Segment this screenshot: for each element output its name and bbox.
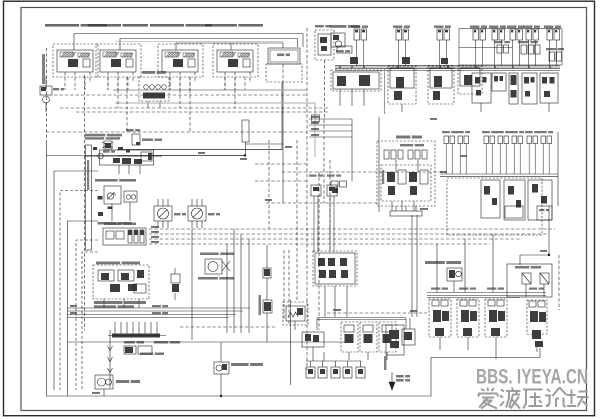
label note bbox=[94, 301, 146, 308]
wire vert dashed 297 bbox=[296, 140, 298, 300]
wire dash y132 bbox=[46, 131, 307, 133]
pilot valve pair 3 bbox=[482, 131, 496, 174]
wire sensor bbox=[266, 245, 268, 342]
wire bus top 3 bbox=[176, 43, 283, 50]
wire bankB header2 bbox=[427, 295, 546, 297]
lift cylinder group 2 bbox=[88, 24, 148, 90]
wire feed bankA 1 bbox=[324, 286, 326, 317]
aux pair row2 c bbox=[546, 48, 564, 61]
cylinder pair 1 bbox=[351, 26, 368, 67]
wire FBR ext bbox=[282, 150, 284, 203]
wire vert 234 bbox=[233, 229, 235, 333]
wire gray drop bbox=[384, 69, 386, 114]
wire main vert A bbox=[46, 140, 48, 396]
wire pilot line bbox=[46, 155, 245, 157]
wire link y144 bbox=[245, 143, 283, 145]
valve V5 bbox=[214, 342, 263, 396]
wire stag 2 bbox=[67, 310, 243, 312]
wire dash y313 bbox=[327, 312, 427, 314]
wire dash y181 bbox=[255, 180, 307, 182]
wire corner E bbox=[76, 240, 98, 390]
wire drop right bbox=[520, 206, 549, 265]
bankA column 3 bbox=[379, 322, 396, 360]
node J3 bbox=[220, 395, 222, 397]
wire bottom collector bbox=[46, 348, 540, 396]
cluster 406 bbox=[402, 318, 415, 345]
pump P2 bbox=[95, 375, 140, 396]
wire mid bus 2 bbox=[440, 175, 558, 177]
valve column MC3 bbox=[528, 180, 552, 220]
wire stag 1 bbox=[67, 307, 250, 309]
valve column RC5 bbox=[540, 73, 558, 112]
valve column RC4 bbox=[522, 73, 537, 104]
wire dash y172 bbox=[282, 171, 447, 173]
bankA column 2 bbox=[360, 322, 377, 360]
wire link y47 bbox=[459, 47, 512, 49]
wire main vert A top bbox=[46, 48, 48, 140]
wire dashed right v bbox=[558, 255, 560, 310]
valve cluster 302 bbox=[302, 332, 324, 361]
node junction J1 bbox=[244, 154, 246, 156]
wire dash bus y239 bbox=[149, 238, 520, 240]
wire vert 227 bbox=[226, 244, 228, 333]
wire group stems bbox=[108, 77, 235, 132]
pilot valve pair 6 bbox=[525, 131, 539, 174]
valve column MC1 bbox=[481, 180, 500, 218]
wire FBR drain bbox=[282, 82, 284, 150]
lift cylinder group 3 bbox=[150, 24, 212, 90]
valve group V2 bbox=[388, 66, 416, 112]
wire gray collector 2 bbox=[115, 102, 315, 104]
central manifold M1 bbox=[377, 136, 435, 212]
valve group V3 bbox=[428, 66, 454, 104]
valve group V1 bbox=[331, 70, 381, 106]
pump station PS bbox=[84, 129, 162, 174]
wire stag 4 bbox=[67, 317, 229, 319]
node J2 bbox=[548, 254, 550, 256]
accumulator bank bbox=[103, 223, 146, 246]
wire y327 dash bbox=[180, 326, 277, 328]
pilot valve pair 7 bbox=[539, 131, 553, 174]
wire gray pilot top bbox=[115, 41, 283, 43]
wire right boundary bbox=[557, 132, 559, 206]
bankB column 1 bbox=[429, 299, 451, 350]
wire vert dashed 324 bbox=[323, 120, 325, 203]
wire feed bus b bbox=[309, 124, 352, 126]
wire stag 3 bbox=[67, 314, 236, 316]
cylinder pair 4 bbox=[470, 26, 487, 67]
label vert left bbox=[42, 54, 45, 84]
wire feed bankB 1 bbox=[436, 244, 438, 292]
wire feed bankB 3 bbox=[492, 234, 494, 292]
wire corner F bbox=[82, 252, 98, 390]
bottom-left cluster bbox=[124, 341, 180, 355]
box small BR bbox=[537, 206, 552, 220]
pilot valve pair 4 bbox=[496, 131, 510, 174]
wire header bus 2 bbox=[335, 66, 560, 68]
hose component bbox=[242, 120, 249, 156]
wire manifold vert bbox=[378, 117, 380, 212]
wire stem group4 bbox=[230, 43, 232, 50]
wire vert 412 bbox=[411, 215, 413, 317]
manifold column bbox=[86, 145, 92, 250]
valve column TR bbox=[315, 25, 334, 120]
drain arrow bbox=[384, 356, 410, 390]
pump P0 bbox=[330, 25, 360, 53]
valve column RC2 bbox=[492, 73, 506, 91]
aux pair row2 b bbox=[518, 41, 540, 54]
sensor S1 bbox=[263, 268, 271, 278]
valve block B2 bbox=[95, 179, 137, 225]
pilot valve pair 5 bbox=[510, 131, 524, 174]
enclosure dashed mid-right bbox=[447, 178, 542, 235]
bankB column 3 bbox=[485, 299, 507, 359]
wire dash bus y244 bbox=[149, 243, 490, 245]
wire bankB header1 bbox=[427, 292, 546, 294]
wire bus top 2 bbox=[120, 39, 298, 51]
wire corner B bbox=[54, 171, 98, 390]
wire gray collector bbox=[113, 89, 307, 91]
filter F1 bbox=[40, 77, 64, 112]
comp small 312 bbox=[312, 115, 320, 122]
gauge G2 bbox=[188, 199, 220, 228]
wire pilot return bbox=[117, 82, 282, 150]
label stag lines bbox=[152, 305, 168, 314]
label mid-right bbox=[425, 261, 445, 264]
wire dash y203 bbox=[266, 202, 379, 204]
cylinder pair 7 bbox=[523, 26, 540, 67]
cylinder pair 8 bbox=[544, 26, 561, 67]
cylinder pair 2 bbox=[393, 26, 410, 67]
wire feed bankA 2 bbox=[334, 286, 336, 317]
valve column MC2 bbox=[504, 180, 525, 220]
valve group V4 bbox=[458, 66, 482, 94]
bankB column 4 bbox=[527, 300, 547, 352]
wire dash y112 bbox=[76, 111, 330, 113]
bankA column 1 bbox=[341, 322, 358, 360]
cylinder pair 3 bbox=[434, 26, 451, 67]
cylinder pair 6 bbox=[507, 26, 524, 67]
valve mark TA bbox=[350, 57, 358, 64]
label bankB headers bbox=[431, 288, 544, 290]
watermark chinese bbox=[478, 388, 589, 409]
gauge G3 bbox=[198, 253, 234, 280]
wire bankA header1 bbox=[317, 317, 406, 319]
valve mark TC bbox=[441, 58, 448, 64]
enclosure top-right bbox=[459, 29, 562, 66]
relief valve RV1 bbox=[283, 302, 308, 330]
pilot valve pair 1 bbox=[442, 131, 456, 174]
wire dash y108 bbox=[60, 107, 330, 109]
valve FBR bbox=[266, 48, 302, 82]
wire id labels bbox=[70, 116, 547, 394]
wire out 2 bbox=[117, 155, 245, 157]
wire gray vert 315 bbox=[314, 103, 316, 157]
wire vert dashed 284 bbox=[283, 250, 285, 320]
pilot valve pair 2 bbox=[456, 131, 470, 174]
svg-text:BBS. IYEYA.CN: BBS. IYEYA.CN bbox=[476, 365, 588, 389]
wire vert dashed 319 bbox=[318, 172, 320, 330]
wire feed bankA 3 bbox=[346, 286, 348, 317]
manifold bar bottom bbox=[108, 322, 166, 338]
wire header bus 4 bbox=[335, 70, 560, 72]
wire dash bus y229 bbox=[149, 228, 555, 230]
valve small SC bbox=[171, 268, 180, 300]
gauge G1 bbox=[154, 199, 186, 228]
wire vert 417 bbox=[416, 215, 418, 317]
valve column RC3 bbox=[509, 73, 518, 104]
wire vert 241 bbox=[240, 234, 242, 333]
wire feed bus c bbox=[309, 130, 352, 132]
node bus junctions bbox=[339, 66, 551, 68]
wire bankB header3 bbox=[427, 297, 520, 299]
bankA column 4 bbox=[386, 325, 404, 355]
wire bus top 1 bbox=[74, 34, 303, 51]
wire feed bankB 2 bbox=[464, 239, 466, 292]
valve cluster RM1 bbox=[309, 175, 341, 253]
wire vert 192 bbox=[191, 229, 193, 340]
wire vert 290 bbox=[290, 300, 292, 385]
wire bankA header2 bbox=[317, 319, 406, 321]
wire dash y164 bbox=[255, 163, 307, 165]
solenoid row bbox=[306, 352, 365, 378]
check valves bbox=[108, 330, 113, 388]
valve column RC1 bbox=[472, 73, 491, 112]
wire dash bus y234 bbox=[149, 233, 548, 235]
wire out 1 bbox=[117, 149, 282, 151]
wire y342 bbox=[67, 341, 345, 343]
bankB column 2 bbox=[457, 299, 479, 350]
wire feed bus d bbox=[309, 136, 352, 138]
wire vert dashed G bbox=[84, 75, 86, 330]
lift cylinder group 4 bbox=[205, 24, 263, 90]
wire feed bus a bbox=[309, 118, 352, 120]
wire vert 249 bbox=[248, 239, 250, 333]
wire header bus 1 bbox=[335, 64, 560, 66]
wire vert dashed 330 bbox=[329, 160, 331, 250]
label vert bbox=[259, 295, 262, 315]
wire corner C bbox=[60, 191, 98, 391]
wire dash y95 bbox=[54, 94, 307, 96]
label manifold vert bbox=[382, 170, 384, 184]
valve mark TB bbox=[402, 57, 410, 64]
wire feed vert bbox=[351, 119, 353, 181]
cooler box bbox=[507, 264, 552, 297]
lift cylinder group 1 bbox=[45, 24, 107, 90]
wire mid bus 1 bbox=[440, 173, 558, 175]
wire vert dashed H bbox=[306, 28, 308, 370]
tank T1 bbox=[390, 206, 422, 216]
valve small LF bbox=[331, 181, 347, 193]
aux pair row2 a bbox=[494, 41, 510, 53]
wire header bus 3 bbox=[335, 68, 560, 70]
valve cluster RM2 bbox=[313, 251, 357, 286]
sensor S2 bbox=[263, 300, 272, 313]
wire corner D bbox=[68, 221, 99, 396]
wire bankA riser bbox=[316, 318, 318, 330]
indicator block bbox=[139, 71, 169, 108]
wire vert dashed 289 bbox=[288, 250, 290, 325]
cylinder pair 5 bbox=[489, 26, 506, 67]
wire vert dashed 269 bbox=[268, 140, 270, 229]
valve VS4 bbox=[447, 268, 462, 292]
valve block B3 bbox=[93, 262, 149, 309]
